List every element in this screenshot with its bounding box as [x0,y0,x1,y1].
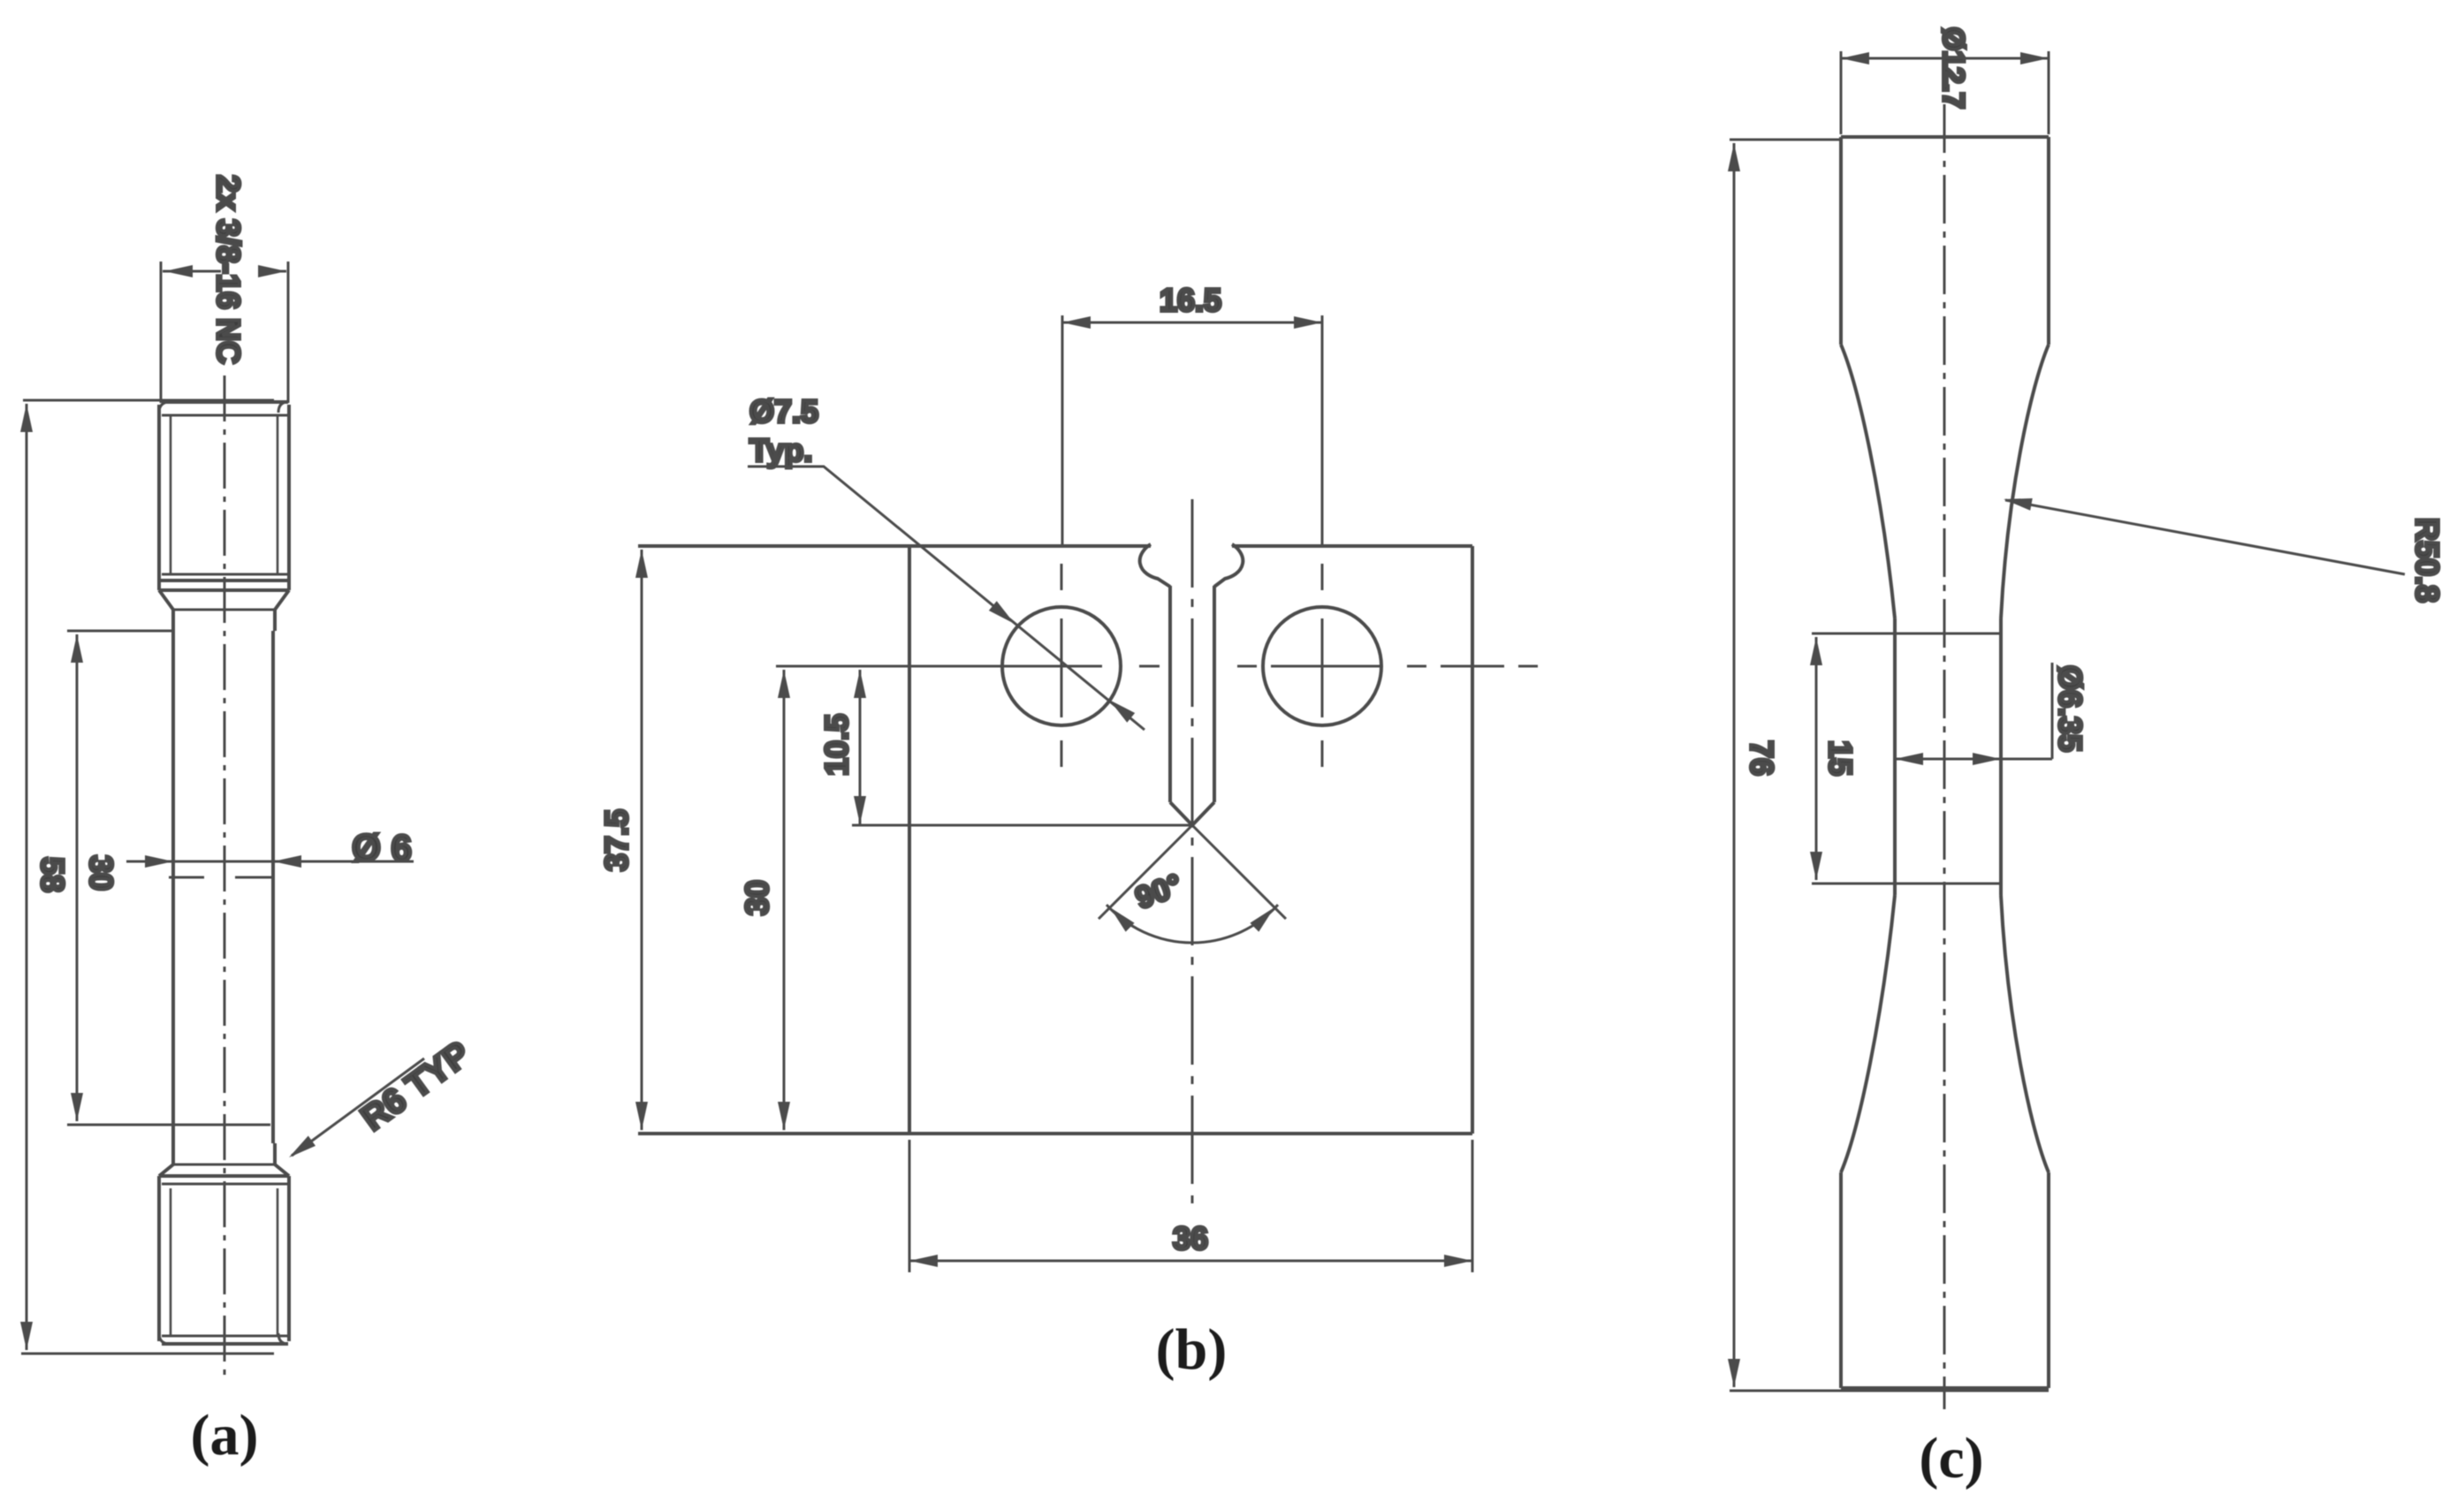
dimension 76 line [1733,143,1736,1387]
dimension 16.5 line [1062,322,1322,324]
dimension 2x 3/8-16 NC line [163,270,286,273]
specimen c bottom shoulder lines [1841,895,2049,1172]
svg-text:37.5: 37.5 [598,809,635,871]
svg-text:Typ.: Typ. [749,432,812,468]
specimen c bottom block sides [1841,1172,2049,1388]
dimension 37.5 line [641,550,643,1130]
svg-text:Ø12.7: Ø12.7 [1936,27,1970,110]
dimension 10.5 extension at notch tip level [852,824,1190,827]
specimen a bottom face [162,1342,288,1346]
slot vertical centerline [1191,499,1194,1206]
svg-text:30: 30 [83,855,119,891]
dimension 58 extension lines [21,400,274,1354]
plate b left edge [908,546,911,1134]
svg-text:30: 30 [739,880,775,915]
dimension 10.5 line [859,670,862,824]
specimen a gauge section sides [173,610,275,1143]
dimension Ø12.7 line [1841,57,2049,60]
plate b bottom edge with extension [638,1132,1472,1135]
dimension 15 extension lines [1812,633,2000,884]
svg-text:2x 3/8-16 NC: 2x 3/8-16 NC [210,175,247,364]
svg-text:36: 36 [1173,1220,1208,1256]
svg-text:Ø6.35: Ø6.35 [2052,665,2088,752]
specimen a centerline [224,375,226,1378]
specimen a top taper to neck [159,590,289,610]
90 degree construction legs [1099,825,1286,919]
dimension 2x 3/8-16 NC extension lines [161,262,288,403]
specimen a thread runout rings [162,573,288,576]
notch mouth right [1214,544,1243,587]
svg-text:Ø7.5: Ø7.5 [749,393,818,429]
dimension Ø6.35 line [1895,758,2052,761]
specimen a bottom thread block sides [159,1176,289,1341]
dimension 30a extension lines [67,631,270,1125]
dimension 16.5 extension lines [1062,315,1322,548]
svg-text:10.5: 10.5 [818,714,855,776]
specimen c centerline [1943,104,1946,1409]
center cross dashes at gauge mid [169,876,271,879]
svg-text:90°: 90° [1131,868,1187,916]
specimen a top chamfer line [162,414,288,417]
dimension 36 extension lines [909,1140,1472,1272]
plate b outline top edge [638,544,1472,548]
plate b right edge [1471,546,1474,1134]
dimension 15 line [1815,637,1818,880]
dimension 30b line [783,670,786,1130]
90 degree arc [1107,905,1278,943]
hole b left circle [1002,607,1121,725]
specimen a bottom taper out [159,1164,289,1176]
specimen a top face [162,400,288,404]
leader R6 TYP [292,1058,424,1156]
notch mouth left [1140,544,1170,587]
slot walls [1170,586,1214,802]
specimen c top shoulder lines [1841,345,2049,618]
svg-text:(b): (b) [1156,1317,1228,1382]
specimen c top block sides [1841,137,2049,345]
hole b right circle [1263,607,1381,725]
dimension 30a line [76,634,79,1121]
left hole vertical crosshair [1061,564,1063,767]
dimension 36 line [909,1260,1472,1263]
horizontal centerline through holes [776,665,1102,668]
svg-text:Ø 6: Ø 6 [352,827,412,869]
specimen a top thread inner lines [171,415,278,574]
leader R50.8 [2005,500,2405,574]
svg-text:(a): (a) [191,1403,259,1468]
specimen c bottom face [1841,1386,2049,1390]
svg-text:76: 76 [1744,740,1780,776]
svg-text:R50.8: R50.8 [2409,518,2445,603]
specimen a bottom thread inner lines [171,1188,278,1336]
dimension Ø6 line [126,861,414,863]
dimension Ø12.7 extension lines [1841,51,2049,134]
right hole vertical crosshair [1321,564,1324,767]
svg-text:58: 58 [34,857,71,892]
svg-text:16.5: 16.5 [1160,282,1221,318]
svg-text:R6 TYP: R6 TYP [354,1035,477,1139]
svg-text:15: 15 [1822,740,1859,776]
slot taper to tip [1170,802,1214,825]
specimen a top thread block sides [159,405,289,590]
specimen c gauge sides [1895,618,2001,895]
specimen c top face [1841,135,2049,139]
svg-text:(c): (c) [1919,1426,1983,1491]
dimension 76 extension lines [1730,140,2049,1391]
dimension 58 line [26,404,28,1350]
specimen a bottom neck [173,1143,275,1164]
